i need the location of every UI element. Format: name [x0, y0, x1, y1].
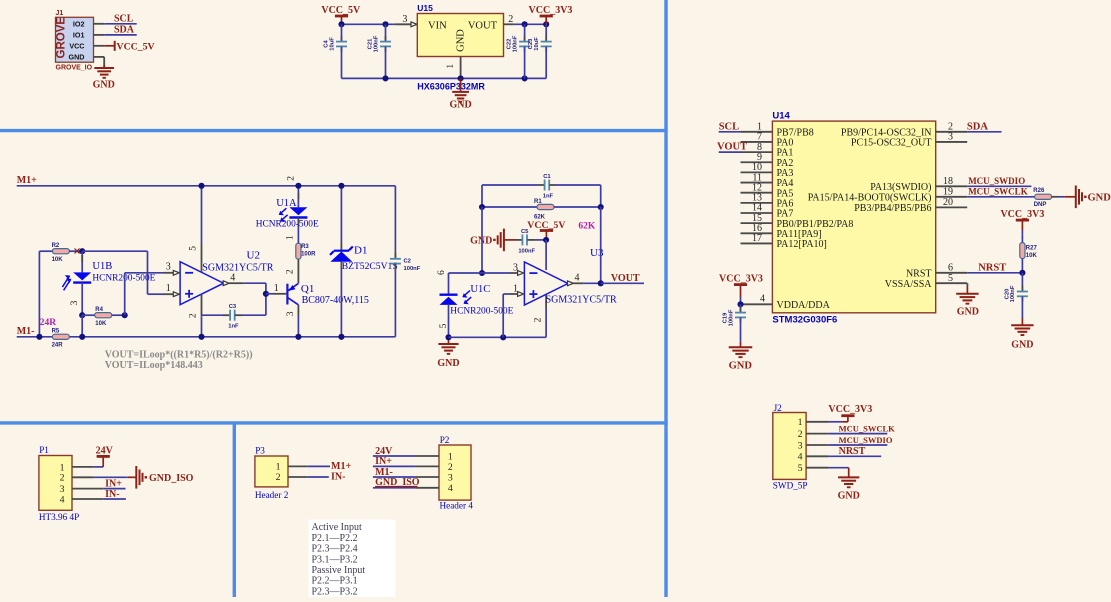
svg-text:VOUT=ILoop*148.443: VOUT=ILoop*148.443: [105, 360, 203, 371]
svg-text:C5: C5: [521, 229, 529, 235]
svg-text:NRST: NRST: [839, 446, 866, 457]
svg-text:1: 1: [60, 462, 65, 473]
section divider vertical main: [664, 0, 667, 597]
svg-text:Q1: Q1: [301, 283, 314, 295]
J1 pin IO2 stub: [94, 23, 105, 25]
svg-text:24V: 24V: [96, 446, 114, 457]
P1 pin1 wire to 24V: [72, 456, 110, 467]
U14 pin 10 PA3: [741, 162, 794, 179]
svg-text:U15: U15: [417, 3, 433, 13]
wire to Q1 base: [266, 283, 286, 294]
svg-text:1: 1: [276, 462, 281, 473]
P3 pin2 wire net IN-: [288, 472, 345, 483]
svg-text:2: 2: [448, 462, 453, 473]
svg-text:Passive Input: Passive Input: [312, 565, 366, 576]
svg-text:5: 5: [439, 323, 449, 328]
svg-text:IN-: IN-: [331, 472, 345, 483]
wire net SCL at U14: [719, 131, 741, 133]
svg-text:VOUT: VOUT: [717, 142, 747, 153]
U14 pin 1 PB7/PB8: [741, 122, 814, 139]
svg-text:U3: U3: [590, 247, 604, 259]
svg-text:3: 3: [513, 263, 518, 274]
ground symbol below C19: [729, 342, 753, 371]
svg-text:PA13(SWDIO): PA13(SWDIO): [870, 182, 931, 193]
junction R4 right: [122, 312, 128, 318]
U14 pin 2 PB9/PC14-OSC32_IN: [841, 122, 967, 139]
U3 labels: [546, 247, 617, 305]
svg-text:GND_ISO: GND_ISO: [149, 473, 194, 484]
svg-text:M1-: M1-: [375, 467, 393, 478]
svg-text:Active Input: Active Input: [312, 522, 362, 533]
U14 pin 13 PA6: [741, 193, 794, 210]
svg-text:10uF: 10uF: [329, 37, 335, 51]
junction U1B bottom / R4 row: [79, 312, 85, 318]
svg-text:4: 4: [575, 272, 580, 283]
junction M1- left: [36, 334, 42, 340]
ground bar port GND right: [1064, 186, 1111, 209]
svg-text:GND: GND: [437, 358, 459, 369]
U14 pin5 wire to ground: [966, 283, 968, 294]
U1C labels: [450, 284, 513, 316]
Q1 labels: [301, 283, 369, 306]
svg-text:VCC: VCC: [69, 41, 84, 50]
svg-text:MCU_SWCLK: MCU_SWCLK: [839, 424, 896, 434]
svg-text:1: 1: [446, 64, 456, 69]
svg-text:Header 2: Header 2: [255, 490, 289, 500]
svg-text:R3: R3: [301, 244, 309, 250]
svg-text:2: 2: [60, 473, 65, 484]
resistor R2: [52, 243, 70, 263]
svg-text:GND: GND: [449, 100, 471, 111]
J2 pin2 wire net MCU_SWCLK: [806, 424, 895, 434]
svg-text:17: 17: [752, 233, 762, 244]
junction M1+ at D1: [338, 183, 344, 189]
power port VCC_3V3 at VDDA: [719, 274, 763, 305]
wire M1- rail: [17, 336, 396, 338]
junction base node: [263, 291, 269, 297]
svg-text:1: 1: [286, 235, 296, 240]
wire minus input row: [449, 272, 520, 274]
U2 pin 5 wire to M1+: [188, 186, 201, 272]
resistor R5: [52, 329, 70, 349]
junction VDDA: [737, 301, 743, 307]
svg-text:STM32G030F6: STM32G030F6: [772, 315, 837, 326]
svg-text:100nF: 100nF: [373, 35, 379, 52]
junction at minus input: [479, 270, 485, 276]
U14 pin 15 PB0/PB1/PB2/PA8: [741, 213, 854, 230]
svg-text:VCC_5V: VCC_5V: [117, 41, 155, 52]
svg-text:20: 20: [943, 197, 953, 208]
svg-text:HX6306P332MR: HX6306P332MR: [417, 81, 485, 91]
svg-text:PA15/PA14-BOOT0(SWCLK): PA15/PA14-BOOT0(SWCLK): [808, 192, 932, 203]
ground symbol at J1: [93, 65, 115, 90]
svg-text:GND: GND: [957, 307, 979, 318]
ground symbol below U15: [449, 78, 471, 110]
svg-text:1nF: 1nF: [543, 193, 554, 199]
svg-text:100nF: 100nF: [404, 266, 421, 272]
wire VCC_5V rail to VIN: [342, 23, 395, 25]
svg-text:C1: C1: [543, 174, 551, 180]
svg-text:24V: 24V: [375, 446, 393, 457]
svg-text:P2.2—P3.1: P2.2—P3.1: [312, 576, 358, 587]
svg-text:3: 3: [402, 14, 407, 25]
svg-text:GND: GND: [93, 79, 115, 90]
svg-text:5: 5: [948, 273, 953, 284]
section divider horizontal top: [0, 129, 668, 132]
wire M1+ rail: [17, 185, 396, 187]
photodiode U1A: [286, 176, 308, 240]
transistor Q1: [287, 283, 298, 304]
svg-text:1: 1: [274, 283, 279, 294]
Q1 collector wire to R3: [286, 267, 299, 283]
capacitor C3: [202, 304, 266, 329]
capacitor C2: [390, 186, 421, 337]
junction plus vertical: [500, 334, 506, 340]
capacitor C5: [516, 229, 547, 254]
svg-text:U1B: U1B: [92, 261, 112, 272]
connector P3 body: [255, 445, 289, 500]
U14 pin 20 PB3/PB4/PB5/PB6: [854, 197, 967, 214]
ground wire below U15: [342, 77, 547, 79]
resistor R3: [296, 225, 316, 267]
svg-text:SGM321YC5/TR: SGM321YC5/TR: [202, 262, 273, 273]
svg-text:VCC_3V3: VCC_3V3: [828, 404, 872, 415]
svg-text:NRST: NRST: [906, 268, 932, 279]
wire output node down: [265, 283, 267, 315]
svg-text:GND: GND: [456, 29, 467, 52]
junction NRST: [1019, 270, 1025, 276]
junction feedback left: [479, 204, 485, 210]
svg-text:100R: 100R: [301, 252, 316, 258]
wire net VOUT at U14: [719, 151, 741, 153]
svg-text:3: 3: [286, 311, 296, 316]
U2 output pin 4: [223, 272, 266, 285]
svg-text:24R: 24R: [40, 318, 57, 328]
svg-text:6: 6: [948, 263, 953, 274]
junction R2 right: [79, 248, 85, 254]
svg-text:3: 3: [448, 472, 453, 483]
resistor R1 feedback: [482, 199, 601, 221]
svg-text:U1C: U1C: [470, 284, 490, 295]
svg-text:2: 2: [533, 317, 543, 322]
wire feedback right vertical: [600, 207, 602, 283]
junction M1- at D1: [338, 334, 344, 340]
svg-text:GND: GND: [838, 490, 860, 501]
note text active passive input: [309, 520, 396, 598]
formula text: [105, 349, 253, 370]
capacitor C1 feedback: [482, 174, 601, 207]
connector J1 GROVE body: [56, 10, 94, 71]
section divider horizontal bottom: [0, 421, 668, 424]
svg-text:SCL: SCL: [719, 121, 739, 132]
junction C21 bottom: [382, 75, 388, 81]
zener diode D1: [330, 186, 353, 337]
capacitor C22: [507, 24, 530, 78]
U15 GND pin 1 stub: [446, 57, 460, 79]
svg-text:100nF: 100nF: [518, 249, 535, 255]
J1 pin IO1 stub: [94, 34, 105, 36]
svg-text:10uF: 10uF: [534, 37, 540, 51]
svg-text:PB3/PB4/PB5/PB6: PB3/PB4/PB5/PB6: [854, 203, 931, 214]
svg-text:2: 2: [508, 14, 513, 25]
junction at C21 top: [382, 21, 388, 27]
svg-text:HT3.96 4P: HT3.96 4P: [39, 512, 79, 522]
wire net NRST: [967, 272, 1022, 274]
capacitor C21: [368, 24, 392, 78]
svg-text:GND: GND: [1088, 192, 1111, 203]
J2 pin1 wire to VCC_3V3: [806, 416, 854, 422]
svg-text:VDDA/DDA: VDDA/DDA: [777, 300, 831, 311]
P1 pin3 wire net IN+: [72, 478, 126, 489]
U2 labels: [202, 249, 273, 273]
ground symbol below C20: [1011, 318, 1033, 351]
capacitor C19: [723, 304, 747, 342]
svg-text:GND: GND: [1011, 340, 1033, 351]
svg-text:BZT52C5V1S: BZT52C5V1S: [342, 261, 398, 272]
svg-text:Header 4: Header 4: [440, 501, 474, 511]
svg-text:P3.1—P3.2: P3.1—P3.2: [312, 554, 358, 565]
U1A labels: [256, 198, 319, 229]
no-ERC marker: [75, 249, 80, 254]
svg-text:J1: J1: [56, 10, 64, 17]
svg-text:GROVE: GROVE: [56, 17, 68, 59]
svg-text:100nF: 100nF: [1010, 285, 1016, 302]
P1 pin4 wire net IN-: [72, 489, 126, 500]
svg-text:GROVE_IO: GROVE_IO: [56, 65, 93, 72]
junction C22 bottom: [522, 75, 528, 81]
junction M1- at U2 pin2: [198, 334, 204, 340]
svg-text:U14: U14: [772, 110, 790, 121]
svg-text:10K: 10K: [1026, 253, 1038, 259]
svg-text:2: 2: [189, 313, 199, 318]
U14 pin 4 VDDA/DDA: [741, 293, 831, 311]
svg-text:2: 2: [286, 269, 296, 274]
power port VCC_5V at U3: [527, 220, 565, 240]
U1B labels: [92, 261, 155, 284]
P1 pin2 wire: [72, 476, 136, 478]
wire plus input: [503, 294, 519, 337]
svg-text:5: 5: [188, 246, 198, 251]
wire net VOUT: [601, 282, 644, 284]
svg-text:10K: 10K: [52, 257, 64, 263]
svg-text:P2: P2: [440, 435, 450, 445]
capacitor C4: [324, 24, 348, 78]
section divider vertical bottom-left: [233, 423, 236, 597]
wire R2 left leg: [39, 251, 52, 337]
svg-text:R4: R4: [95, 307, 103, 313]
U14 pin 5 VSSA/SSA: [885, 273, 967, 290]
U15 pin 2 VOUT stub: [504, 14, 514, 25]
junction M1+ at U2 pin5: [198, 183, 204, 189]
connector P2 body: [439, 435, 473, 511]
svg-text:J2: J2: [774, 403, 783, 413]
wire U1B to M1-: [81, 315, 83, 337]
wire VOUT to VCC_3V3: [514, 23, 546, 25]
svg-text:SWD_5P: SWD_5P: [773, 480, 808, 490]
wire R4 node to opamp minus: [125, 273, 163, 315]
ground bar port at C5: [470, 229, 515, 252]
svg-text:DNP: DNP: [1034, 202, 1047, 208]
MCU U14 body: [772, 110, 935, 325]
svg-text:4: 4: [798, 452, 803, 463]
svg-text:D1: D1: [354, 245, 367, 257]
svg-text:4: 4: [760, 293, 765, 304]
svg-text:3: 3: [70, 300, 80, 305]
svg-text:PA12[PA10]: PA12[PA10]: [777, 239, 827, 250]
svg-text:IN+: IN+: [375, 456, 392, 467]
U14 pin 3 PC15-OSC32_OUT: [851, 132, 967, 149]
D1 labels: [342, 245, 398, 272]
junction output: [598, 280, 604, 286]
svg-text:IN+: IN+: [105, 478, 122, 489]
junction M1- at 82: [79, 334, 85, 340]
svg-text:GND: GND: [729, 360, 753, 371]
svg-text:M1-: M1-: [17, 326, 35, 337]
junction VCC at U3 pin5: [543, 237, 549, 243]
U14 pin 7 PA0: [741, 132, 794, 149]
svg-text:1nF: 1nF: [228, 323, 239, 329]
J2 pin5 wire to ground: [806, 468, 849, 478]
wire node to opamp plus corner: [82, 251, 163, 294]
svg-text:1: 1: [513, 284, 518, 295]
connector P1 body: [39, 445, 79, 522]
svg-text:VSSA/SSA: VSSA/SSA: [885, 279, 932, 290]
svg-text:4: 4: [60, 494, 65, 505]
P2 pin1 wire net 24V: [373, 446, 439, 457]
svg-text:R1: R1: [534, 199, 542, 205]
svg-text:SDA: SDA: [114, 25, 135, 36]
voltage regulator U15 body: [417, 3, 503, 56]
svg-text:100nF: 100nF: [512, 35, 518, 52]
svg-text:5: 5: [798, 463, 803, 474]
svg-text:MCU_SWDIO: MCU_SWDIO: [968, 176, 1025, 186]
wire net SCL: [104, 23, 137, 25]
J2 pin4 wire net NRST: [806, 446, 881, 457]
svg-text:VOUT: VOUT: [611, 273, 640, 284]
connector J2 body: [773, 403, 808, 490]
svg-text:IO2: IO2: [73, 19, 85, 28]
svg-text:C3: C3: [229, 304, 237, 310]
svg-text:R27: R27: [1026, 245, 1038, 251]
U1B light arrows: [62, 276, 69, 287]
svg-text:19: 19: [943, 187, 953, 198]
resistor R26 DNP: [1033, 188, 1064, 208]
svg-text:MCU_SWDIO: MCU_SWDIO: [839, 435, 893, 445]
svg-text:100nF: 100nF: [728, 309, 734, 326]
capacitor C23: [528, 24, 552, 78]
svg-text:3: 3: [948, 132, 953, 143]
svg-text:VCC_3V3: VCC_3V3: [1000, 209, 1044, 220]
junction C22 top: [522, 21, 528, 27]
svg-text:VCC_5V: VCC_5V: [321, 5, 361, 16]
svg-text:HCNR200-500E: HCNR200-500E: [256, 219, 319, 229]
U14 pin 19 PA15/PA14-BOOT0(SWCLK): [808, 187, 967, 204]
Q1 emitter wire to M1-: [286, 305, 299, 337]
junction M1- at Q1: [295, 334, 301, 340]
junction U15 gnd: [458, 75, 464, 81]
junction C23 top: [543, 21, 549, 27]
wire bottom row to pin2: [449, 295, 547, 338]
U14 pin 6 NRST: [906, 263, 967, 280]
junction U1C bottom: [445, 334, 451, 340]
svg-text:IO1: IO1: [73, 30, 85, 39]
svg-text:SGM321YC5/TR: SGM321YC5/TR: [546, 294, 617, 305]
svg-text:U2: U2: [247, 249, 260, 261]
svg-text:3: 3: [798, 440, 803, 451]
J1 pin GND stub: [94, 57, 105, 67]
op-amp U3: [513, 262, 568, 305]
svg-text:2: 2: [276, 472, 281, 483]
svg-text:IN-: IN-: [105, 489, 119, 500]
svg-text:P2.3—P2.4: P2.3—P2.4: [312, 544, 358, 555]
svg-text:VCC_3V3: VCC_3V3: [529, 5, 573, 16]
svg-text:MCU_SWCLK: MCU_SWCLK: [968, 187, 1028, 197]
svg-text:BC807-40W,115: BC807-40W,115: [302, 295, 369, 306]
svg-text:R2: R2: [52, 243, 60, 249]
svg-text:4: 4: [230, 272, 235, 283]
power port VCC_3V3 at R27: [1000, 209, 1044, 234]
wire net SDA: [967, 131, 1001, 133]
svg-text:VOUT=ILoop*((R1*R5)/(R2+R5)): VOUT=ILoop*((R1*R5)/(R2+R5)): [105, 349, 253, 360]
wire net MCU_SWCLK: [967, 196, 1034, 198]
svg-text:U1A: U1A: [276, 198, 297, 209]
junction feedback right: [598, 204, 604, 210]
ground symbol at J2: [838, 477, 860, 501]
U1C light arrows: [463, 291, 470, 297]
U15 pin 3 stub with arrow: [395, 14, 417, 27]
svg-text:M1+: M1+: [17, 175, 37, 186]
ground bar port GND_ISO: [136, 466, 193, 489]
power port VCC_3V3 at U15 output: [529, 5, 573, 24]
P2 pin3 wire net M1-: [373, 467, 439, 478]
U14 pin 12 PA5: [741, 182, 794, 199]
U14 pin 11 PA4: [741, 172, 794, 189]
ground symbol at VSSA: [956, 294, 979, 318]
resistor R4: [82, 307, 125, 327]
svg-text:62K: 62K: [578, 222, 596, 232]
svg-text:P2.1—P2.2: P2.1—P2.2: [312, 533, 358, 544]
svg-text:VOUT: VOUT: [468, 21, 498, 32]
P2 pin4 wire net GND_ISO: [373, 477, 439, 488]
U14 pin 17 PA12[PA10]: [741, 233, 827, 250]
J1 pin VCC stub: [94, 45, 105, 47]
svg-text:P2.3—P3.2: P2.3—P3.2: [312, 586, 358, 597]
svg-text:3: 3: [60, 484, 65, 495]
P3 pin1 wire net M1+: [288, 461, 351, 472]
svg-text:2: 2: [798, 429, 803, 440]
U3 pin5 wire: [545, 240, 547, 270]
svg-text:10K: 10K: [95, 321, 107, 327]
junction at C4 top: [338, 21, 344, 27]
U14 pin 9 PA2: [741, 152, 794, 169]
svg-text:P3: P3: [255, 445, 265, 455]
svg-text:1: 1: [448, 451, 453, 462]
svg-text:M1+: M1+: [331, 461, 351, 472]
svg-text:VIN: VIN: [428, 21, 447, 32]
svg-text:R5: R5: [52, 329, 60, 335]
junction M1+ at U1A: [295, 183, 301, 189]
svg-text:GND: GND: [69, 52, 85, 61]
P2 pin2 wire net IN+: [373, 456, 439, 467]
svg-text:3: 3: [166, 262, 171, 273]
svg-text:HCNR200-500E: HCNR200-500E: [450, 307, 513, 317]
svg-text:6: 6: [437, 270, 447, 275]
power port VCC_5V at J1: [104, 41, 154, 53]
resistor R27: [1020, 234, 1038, 272]
svg-text:18: 18: [943, 176, 953, 187]
U14 pin 14 PA7: [741, 203, 794, 220]
photodiode U1B: [70, 251, 91, 315]
